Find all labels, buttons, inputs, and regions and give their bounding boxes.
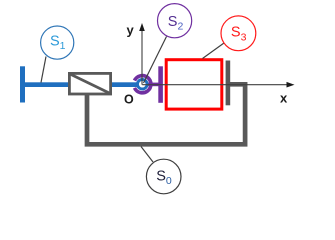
- label circle S3: [221, 16, 256, 51]
- pointer line S0: [141, 147, 153, 163]
- purple bar S2: [158, 66, 163, 103]
- label circle S2: [158, 4, 192, 38]
- blue pivot ring: [138, 79, 148, 89]
- gray bar right of S3: [226, 61, 231, 106]
- pointer line S2: [144, 37, 167, 84]
- pointer line S1: [41, 57, 46, 83]
- body S3 white fill: [165, 58, 224, 110]
- svg-text:x: x: [280, 91, 288, 106]
- svg-text:O: O: [124, 93, 134, 107]
- pointer line S3: [203, 43, 225, 59]
- red body S3 outline: [166, 60, 222, 109]
- purple stub connector: [148, 83, 159, 87]
- wall bar (blue anchor of S1): [20, 66, 25, 102]
- label circle S0: [146, 159, 181, 194]
- y axis arrowhead: [139, 23, 145, 31]
- slider box (gray with diagonal): [69, 73, 110, 94]
- purple C-ring S2 around pivot: [135, 76, 151, 93]
- x axis arrowhead: [287, 82, 295, 88]
- y axis: [141, 30, 143, 85]
- frame S0 (fixed frame): [87, 84, 245, 144]
- svg-text:y: y: [127, 23, 135, 38]
- rod S1 (blue shaft): [24, 82, 138, 87]
- x axis: [142, 84, 288, 86]
- label circle S1: [41, 26, 74, 59]
